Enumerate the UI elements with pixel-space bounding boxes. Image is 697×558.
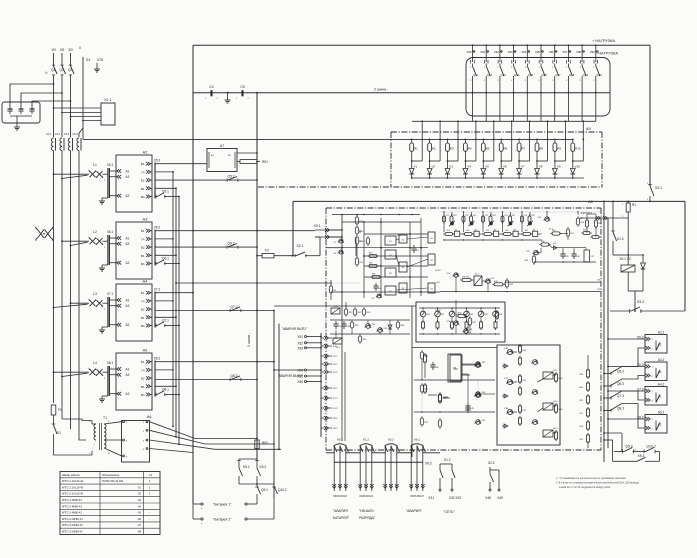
svg-text:X9.1: X9.1 (314, 224, 321, 228)
svg-text:R54: R54 (552, 230, 555, 232)
svg-text:V9: V9 (557, 165, 561, 169)
svg-text:Q8.3: Q8.3 (617, 407, 624, 411)
svg-text:R65: R65 (363, 339, 366, 341)
svg-text:A4.2: A4.2 (658, 383, 665, 387)
svg-text:Q9.1: Q9.1 (261, 488, 268, 492)
wire A6 out2 (150, 430, 275, 444)
wire mesh rail y256 (364, 255, 428, 257)
svg-text:2 шина -: 2 шина - (374, 88, 389, 92)
svg-text:V42: V42 (455, 314, 458, 316)
svg-text:X94: X94 (521, 50, 526, 54)
svg-text:R6: R6 (504, 147, 508, 151)
wire corner x293 vertical (292, 201, 294, 255)
pin A1 of A4 (117, 298, 121, 302)
resistor column right inner (587, 370, 590, 377)
connector pin K6.2 (324, 386, 328, 390)
svg-text:1: 1 (88, 237, 89, 239)
wire X9.1 pin2 inside A8 (326, 236, 342, 238)
svg-text:X5.1: X5.1 (107, 163, 114, 167)
svg-text:"НАЧАЛО: "НАЧАЛО (359, 509, 374, 513)
resistor R9 (553, 143, 557, 151)
ground of L2 (102, 264, 108, 266)
wire array links (537, 379, 543, 382)
svg-text:2: 2 (104, 247, 105, 249)
wire Q10.2 corner down (658, 452, 660, 462)
wire box vertical x412 (411, 306, 413, 457)
svg-text:Б1: Б1 (141, 162, 145, 166)
svg-text:-: - (245, 522, 246, 525)
wire mesh rail y292 (331, 291, 440, 293)
logic box D2.3 (399, 283, 407, 293)
svg-text:-08: -08 (137, 530, 141, 534)
diode V32 (389, 320, 391, 334)
svg-text:+ НАГРУЗКА: + НАГРУЗКА (592, 38, 615, 43)
pin A3 of A4 (117, 304, 121, 308)
wire A9 column 1 (411, 139, 413, 143)
wire X54 from bus (274, 369, 305, 371)
wire A2 B1 line to A7 (155, 163, 207, 165)
connector X99 (595, 44, 597, 46)
table cable list (60, 472, 160, 535)
wire A9 column 4 (464, 139, 466, 143)
svg-text:Б1: Б1 (141, 291, 145, 295)
svg-text:-: - (149, 499, 150, 502)
svg-text:X52: X52 (297, 341, 303, 345)
wire top right drop to S3.1 (649, 45, 651, 186)
comparator box D4.1a (428, 232, 435, 243)
svg-text:X51: X51 (297, 335, 303, 339)
diode V10 (570, 169, 575, 175)
svg-text:Ю3: Ю3 (467, 230, 470, 232)
diode V6 (499, 169, 504, 175)
svg-text:-07: -07 (137, 523, 141, 527)
resistor R1 (410, 143, 414, 151)
svg-text:V45: V45 (499, 314, 502, 316)
svg-text:A3: A3 (143, 218, 148, 222)
transistor V33 (476, 363, 481, 368)
svg-text:R47: R47 (473, 322, 476, 324)
pin 1 of A6 right (146, 421, 148, 423)
svg-text:A2: A2 (126, 392, 130, 396)
svg-text:X5.4: X5.4 (638, 454, 645, 458)
connector X98 (581, 44, 583, 46)
wire drops group K1.2 (359, 453, 361, 491)
svg-text:K1.2: K1.2 (444, 458, 451, 462)
wire inner col top (587, 355, 589, 360)
diode V2 (427, 169, 432, 175)
svg-text:R58: R58 (583, 230, 586, 232)
wire phase C vertical (70, 53, 72, 66)
pin A2 of A2 (117, 194, 121, 198)
svg-text:A6: A6 (147, 415, 151, 419)
connector pin K1.3 (324, 370, 328, 374)
svg-text:A1: A1 (126, 237, 130, 241)
wire v342 to group (341, 420, 343, 441)
wire right bus b (607, 218, 609, 448)
resistor R78 (438, 420, 441, 427)
wire y230 rail inside (359, 230, 361, 233)
wire drops group K5.2 (384, 453, 386, 491)
transistor V34 (476, 392, 481, 397)
svg-text:A5: A5 (143, 349, 148, 353)
wire C2 to phase B (21, 93, 62, 106)
svg-text:X93: X93 (508, 50, 513, 54)
svg-text:-: - (149, 505, 150, 508)
pin A3 of A3 (117, 242, 121, 246)
connector pin K5.2 (324, 362, 328, 366)
svg-text:клемм Хв с 3 по 10 соединяются: клемм Хв с 3 по 10 соединяются между соб… (559, 486, 611, 489)
resistor R4 (464, 143, 468, 151)
pin A2 of A5 (117, 392, 121, 396)
svg-text:X97: X97 (562, 50, 567, 54)
svg-text:R36: R36 (372, 274, 375, 276)
connector X93 (513, 44, 515, 46)
svg-text:X96: X96 (549, 50, 554, 54)
svg-text:R5: R5 (486, 147, 490, 151)
cell resistor R34 (523, 233, 531, 236)
wire phase B vertical (61, 53, 63, 66)
wire row2 wires (549, 245, 552, 248)
svg-text:A3: A3 (126, 242, 130, 246)
svg-text:Ю3: Ю3 (486, 230, 489, 232)
resistor R22e (329, 286, 332, 293)
svg-text:X55: X55 (297, 375, 303, 379)
resistor R96 (555, 405, 558, 412)
svg-text:L2: L2 (93, 230, 97, 234)
wire Q15 to common (526, 92, 528, 94)
svg-text:I>: I> (45, 71, 48, 75)
resistor R61b (344, 309, 347, 315)
svg-text:Х22Х23Х24: Х22Х23Х24 (359, 494, 373, 498)
relay K1.4 coil (333, 338, 342, 344)
wire A9 column 10 (572, 139, 574, 143)
svg-text:В4: В4 (514, 230, 516, 232)
svg-text:1 шина -: 1 шина - (247, 332, 251, 347)
svg-text:F1: F1 (58, 408, 62, 412)
wire X5x bus vertical (320, 333, 322, 437)
wire Q16 to common (540, 92, 542, 94)
logic box D2.1 (399, 235, 407, 243)
wire phase A vertical (53, 53, 55, 66)
svg-text:РАЗРЯДА": РАЗРЯДА" (359, 516, 376, 520)
svg-text:- НАГРУЗКА: - НАГРУЗКА (596, 51, 618, 56)
svg-text:S3.1: S3.1 (655, 186, 662, 190)
svg-text:Ю3: Ю3 (506, 230, 509, 232)
wire bus 2 horizontal (193, 92, 466, 94)
wire A3 pins to bundle (155, 238, 173, 240)
wire mid line y306 to box (274, 305, 416, 307)
wire mid line y283 (176, 282, 332, 284)
svg-text:S3.2: S3.2 (637, 300, 644, 304)
cell resistor R30 (445, 233, 453, 236)
pin 5 of A6 left (123, 421, 125, 423)
transistor V33 (476, 362, 481, 367)
wire A4 Q7.2 line (155, 310, 274, 312)
svg-text:R43: R43 (367, 312, 370, 314)
diode V3 (445, 169, 450, 175)
wire X97 drop (567, 45, 569, 62)
wire capacitor commons (10, 115, 32, 117)
resistor R66 (396, 322, 399, 328)
svg-text:Б1: Б1 (141, 229, 145, 233)
transistor V38 group (507, 409, 512, 414)
svg-text:A2: A2 (126, 194, 130, 198)
svg-text:У11: У11 (597, 289, 600, 291)
relay coil D4.3 (543, 430, 553, 437)
svg-text:V8: V8 (539, 165, 543, 169)
connector pin K2.2 (324, 354, 328, 358)
connector X95 (540, 44, 542, 46)
logic box D2.2 (399, 262, 407, 272)
wire right frame vertical (684, 201, 686, 311)
wire K1.3 to coil (613, 254, 628, 256)
svg-text:V28: V28 (581, 222, 584, 224)
capacitor box C1-C3 enclosure (2, 102, 40, 123)
resistor R6 (499, 143, 503, 151)
wire A8 top rail (332, 214, 420, 216)
wire X98 drop (581, 45, 583, 62)
wire X91 drop (485, 45, 487, 62)
svg-text:X31: X31 (428, 496, 434, 500)
rectifier block A3 outline (116, 222, 152, 279)
svg-text:0: 0 (79, 46, 81, 50)
svg-text:A3: A3 (126, 175, 130, 179)
cell group V15 (482, 212, 484, 232)
comparator box D4.3a (428, 283, 435, 293)
wire scatter links (421, 361, 423, 380)
svg-text:T1: T1 (103, 416, 107, 420)
svg-text:-05: -05 (137, 511, 141, 515)
pin A1 of A2 (117, 169, 121, 173)
resistor R5B (505, 280, 508, 287)
svg-text:V13ПС: V13ПС (435, 270, 442, 272)
wire neutral X4 vertical (82, 57, 84, 139)
capacitor C46 (432, 362, 434, 365)
svg-text:K6.2: K6.2 (337, 437, 343, 441)
relay coil D4.1 (543, 372, 553, 379)
wire bus 1-shina vertical (256, 93, 258, 461)
relay block A4.2 box (645, 387, 667, 406)
svg-text:Г4: Г4 (141, 170, 145, 174)
diode V1 (409, 169, 414, 175)
relay block A2.2 box (645, 335, 667, 354)
resistor R70c (420, 418, 423, 425)
ground of L1 (102, 197, 108, 199)
wire phase A below choke (53, 151, 55, 403)
svg-text:A1: A1 (126, 170, 130, 174)
wire Q19 to common (581, 92, 583, 94)
svg-text:X6.2: X6.2 (154, 226, 161, 230)
wire A9 column 7 (518, 139, 520, 143)
svg-text:L5.1: L5.1 (46, 132, 52, 136)
wire right bus a (603, 201, 605, 462)
pin A1 of A3 (117, 236, 121, 240)
wire K1.1 pin3 (71, 116, 102, 118)
svg-text:X99: X99 (590, 50, 595, 54)
svg-text:КПГС-2 2х/120-44: КПГС-2 2х/120-44 (62, 479, 84, 483)
svg-text:V29: V29 (553, 243, 556, 245)
wire A9 column 5 (482, 139, 484, 143)
wire bus 1 horizontal top (193, 44, 650, 46)
svg-text:1: 1 (88, 368, 89, 370)
svg-text:"Батарея 2": "Батарея 2" (213, 518, 232, 522)
optocoupler V42 (449, 311, 455, 317)
svg-text:X32 X33: X32 X33 (449, 496, 461, 500)
wire K1.1 pin4 (83, 120, 101, 122)
svg-text:A3: A3 (126, 304, 130, 308)
wire Q18 to common (568, 92, 570, 94)
svg-text:K5.2: K5.2 (333, 364, 338, 366)
wire A2 pins to bundle (155, 171, 173, 173)
wire y283 inside (332, 282, 360, 284)
wire phase C to chokes (70, 75, 72, 137)
wire X90 drop (472, 45, 474, 62)
connector X90 (472, 44, 474, 46)
svg-text:C24: C24 (504, 215, 507, 217)
wire vertical x274 (273, 311, 275, 498)
ground between C4 C5 (227, 93, 229, 97)
wire A3.2 pins left (608, 366, 645, 368)
comparator box D4.2a (428, 254, 435, 265)
svg-text:-: - (149, 512, 150, 515)
relay coil D4.2 (543, 403, 553, 410)
wire X92 drop (499, 45, 501, 62)
svg-text:C25: C25 (524, 215, 527, 217)
wire A7 top link (237, 152, 257, 154)
wire phase B to chokes (61, 75, 63, 137)
svg-text:3Θ: 3Θ (68, 48, 73, 52)
svg-text:X7.2: X7.2 (154, 288, 161, 292)
svg-text:Обозначение: Обозначение (102, 473, 120, 477)
svg-text:КПГС-2 48/80-42: КПГС-2 48/80-42 (62, 511, 82, 515)
ground under capacitor box (16, 124, 18, 127)
relay block A3.2 box (645, 362, 667, 381)
resistor R13h (369, 254, 377, 257)
transistor V31 (378, 328, 383, 333)
cell resistor R32 (484, 233, 492, 236)
wire S1 to T1 bottom (54, 454, 93, 456)
wire A3 B1 line to X9.1 (155, 230, 315, 232)
svg-text:Q5.3: Q5.3 (617, 370, 624, 374)
svg-text:R3: R3 (450, 147, 454, 151)
svg-text:K8.2: K8.2 (333, 418, 338, 420)
diode V46 (502, 365, 506, 367)
wire rail y380 (414, 379, 495, 381)
svg-text:"АВАРИЯ: "АВАРИЯ (333, 509, 348, 513)
wire Q20 to common (595, 92, 597, 94)
wire neutral below choke (79, 151, 86, 440)
wire Q12 to common (485, 92, 487, 94)
resistor R63b (362, 309, 365, 315)
svg-text:2: 2 (104, 309, 105, 311)
svg-text:В4: В4 (141, 195, 145, 199)
resistor R7 (517, 143, 521, 151)
svg-text:R1: R1 (414, 147, 418, 151)
svg-text:КПГС-2 М2/80-42: КПГС-2 М2/80-42 (62, 530, 83, 534)
svg-text:V3: V3 (449, 165, 453, 169)
svg-text:V4: V4 (467, 165, 471, 169)
svg-text:"АВАРИЯ ВЫП1": "АВАРИЯ ВЫП1" (282, 327, 307, 331)
rectifier block A5 outline (116, 353, 152, 410)
svg-text:Х40Х41Х42: Х40Х41Х42 (333, 494, 347, 498)
svg-text:-06: -06 (137, 517, 141, 521)
wire A9 column 8 (536, 139, 538, 143)
diode V3 right (642, 255, 644, 263)
svg-text:A5.2: A5.2 (658, 411, 665, 415)
capacitor C4 A8 (413, 245, 415, 248)
ground of L4 (102, 395, 108, 397)
svg-text:R7: R7 (521, 147, 525, 151)
svg-text:Б1: Б1 (141, 360, 145, 364)
svg-text:В4: В4 (475, 230, 477, 232)
svg-text:Б2: Б2 (141, 377, 145, 381)
svg-text:X8.1: X8.1 (107, 361, 114, 365)
svg-text:Г4: Г4 (141, 368, 145, 372)
diode V48 (502, 425, 506, 427)
capacitor C45 (467, 403, 469, 406)
svg-text:X92: X92 (494, 50, 499, 54)
capacitor C35 (562, 251, 564, 254)
svg-text:R57: R57 (571, 233, 574, 235)
svg-text:Б2: Б2 (141, 246, 145, 250)
transistor V37 group (507, 379, 512, 384)
svg-text:C35: C35 (565, 256, 568, 258)
wire mesh rail y234 (364, 233, 428, 235)
svg-text:-02: -02 (137, 492, 141, 496)
optocoupler V45 (493, 311, 499, 317)
resistor R46 (532, 256, 535, 263)
svg-text:R66: R66 (401, 325, 404, 327)
wire rail y334 (330, 333, 410, 335)
wire mesh rail y222 (342, 221, 421, 223)
svg-text:2: 2 (104, 180, 105, 182)
wire A4 pins to bundle (155, 300, 173, 302)
diode V8 (535, 169, 540, 175)
svg-text:Х25Х26Х27: Х25Х26Х27 (410, 494, 424, 498)
wire mesh vertical x421 (420, 218, 422, 296)
svg-text:-01: -01 (137, 485, 141, 489)
svg-text:В1: В1 (141, 187, 145, 191)
wire rail y412 (414, 411, 495, 413)
wire cells bottom rail (444, 239, 542, 241)
svg-text:R64: R64 (355, 325, 358, 327)
cell group V14 (463, 212, 465, 232)
transistor V26 (545, 217, 549, 221)
svg-text:R44: R44 (494, 281, 497, 283)
resistor R54 (552, 232, 560, 235)
wire Q9.2 feed (621, 433, 623, 452)
svg-text:R8: R8 (539, 147, 543, 151)
diode V5 (481, 169, 486, 175)
wire neutral line to A9 (83, 138, 412, 140)
wire Q13 to common (499, 92, 501, 94)
resistor R10 (571, 143, 575, 151)
svg-text:R1: R1 (632, 203, 636, 207)
resistor R2 (428, 143, 432, 151)
svg-text:A2: A2 (126, 261, 130, 265)
svg-text:C4: C4 (209, 85, 213, 89)
wire v345 to group (344, 352, 346, 441)
svg-text:A1: A1 (126, 299, 130, 303)
transistor V18 (464, 329, 468, 333)
svg-text:2: 2 (104, 378, 105, 380)
svg-text:Б2: Б2 (141, 308, 145, 312)
pin 3 of A6 right (146, 439, 148, 441)
connector X96 (554, 44, 556, 46)
svg-text:R24: R24 (492, 215, 495, 217)
svg-text:S2.1: S2.1 (297, 244, 304, 248)
svg-text:C5: C5 (240, 85, 244, 89)
